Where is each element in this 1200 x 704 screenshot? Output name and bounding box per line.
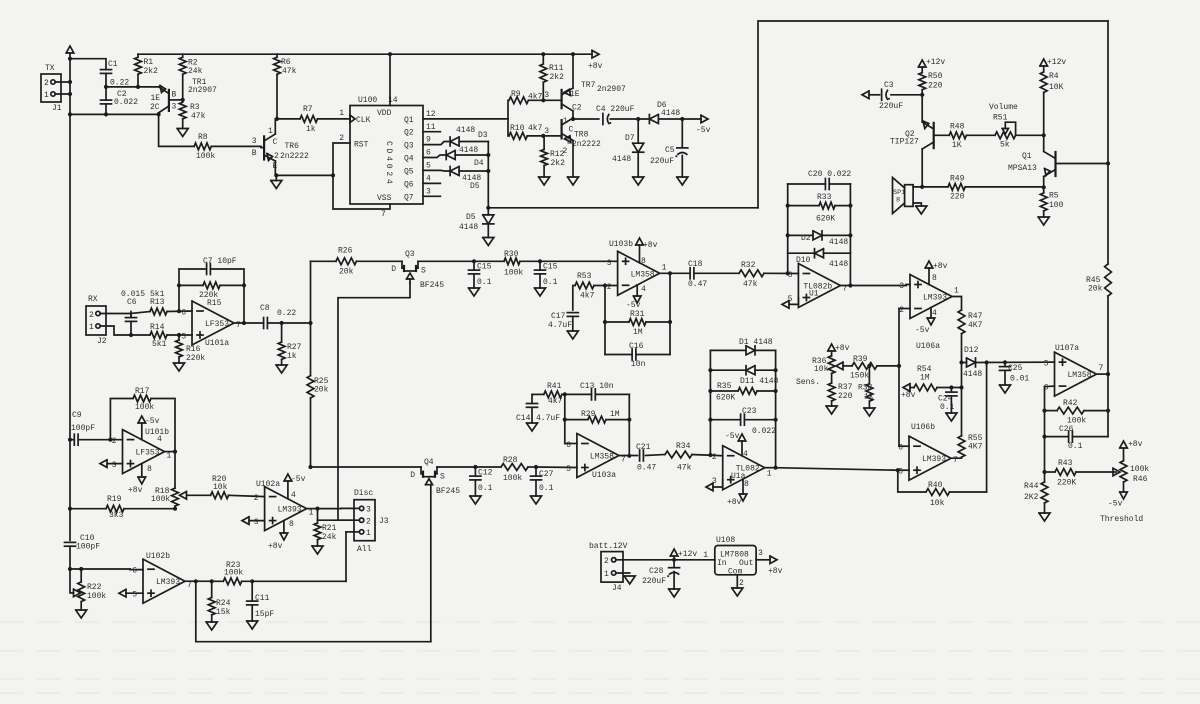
ground below R12: [539, 177, 550, 185]
svg-text:D1 4148: D1 4148: [739, 338, 773, 347]
svg-text:4148: 4148: [829, 260, 848, 269]
svg-text:100k: 100k: [196, 152, 215, 161]
resistor R49: [948, 175, 965, 202]
wire U103b output: [660, 272, 690, 274]
wiper arrow R18: [180, 492, 187, 500]
wire R41 left lead: [533, 393, 544, 395]
node junction: [486, 206, 490, 210]
svg-text:Threshold: Threshold: [1100, 515, 1143, 524]
node junction: [848, 204, 852, 208]
svg-text:8: 8: [744, 480, 749, 489]
wire J1 pin1 to bus: [55, 93, 70, 95]
op-amp U103b: [607, 240, 667, 310]
wire R18 wiper to R20: [187, 494, 211, 496]
ground below speaker: [916, 206, 927, 214]
node junction: [636, 117, 640, 121]
wire R30 to C15b: [520, 260, 540, 262]
svg-text:3: 3: [758, 549, 763, 558]
svg-text:4.7uF: 4.7uF: [548, 321, 572, 330]
node junction: [177, 333, 181, 337]
power +8v arrow sens: [828, 344, 850, 353]
ground below C28: [669, 589, 680, 597]
svg-text:C3: C3: [884, 81, 894, 90]
transistor TR7: [562, 81, 626, 113]
ground below C27: [531, 496, 542, 504]
svg-text:+8v: +8v: [588, 62, 603, 71]
svg-text:+12v: +12v: [1047, 58, 1066, 67]
resistor R37: [828, 383, 852, 401]
connector J2: [86, 295, 107, 346]
svg-text:8: 8: [289, 520, 294, 529]
diode D2: [801, 231, 848, 247]
wire U103a output: [619, 455, 638, 457]
wire bus to C1 top: [70, 59, 106, 70]
op-amp U101a: [181, 301, 241, 348]
wire C17 to ground: [572, 317, 574, 332]
svg-text:47k: 47k: [191, 112, 206, 121]
svg-text:1: 1: [366, 529, 371, 538]
capacitor C9: [71, 411, 95, 445]
svg-text:R34: R34: [676, 442, 691, 451]
svg-text:-5v: -5v: [696, 126, 711, 135]
transistor TR1: [150, 78, 217, 113]
wire J1 return wire: [70, 113, 159, 115]
resistor R14: [150, 323, 167, 349]
ground below C17: [567, 331, 578, 339]
resistor R4: [1040, 72, 1063, 93]
wire U106a output to R47: [952, 297, 962, 311]
svg-text:D3: D3: [478, 131, 488, 140]
resistor R3: [179, 102, 205, 121]
svg-text:C15: C15: [477, 263, 492, 272]
wire Q1 wire to R10: [508, 119, 509, 136]
resistor R26: [336, 247, 357, 277]
svg-text:R10: R10: [510, 124, 525, 133]
node junction: [1042, 133, 1046, 137]
capacitor C13: [580, 382, 614, 400]
wire C8 to R25 bus: [268, 322, 311, 324]
node junction: [920, 185, 924, 189]
svg-text:R39: R39: [853, 355, 868, 364]
svg-text:1: 1: [954, 287, 959, 296]
svg-text:U103b: U103b: [609, 240, 633, 249]
svg-text:R33: R33: [817, 193, 832, 202]
svg-text:2: 2: [563, 147, 568, 156]
node junction: [708, 368, 712, 372]
wire R47-R55 vertical: [961, 334, 963, 436]
wire R24 top lead: [211, 581, 213, 597]
svg-text:2: 2: [112, 437, 117, 446]
wire D4 to bus: [455, 154, 488, 156]
wire U108 out lead: [756, 559, 770, 561]
svg-text:+8v: +8v: [643, 241, 658, 250]
wire R37 to ground: [831, 401, 833, 406]
svg-text:TIP127: TIP127: [890, 138, 919, 147]
svg-text:4148: 4148: [456, 126, 475, 135]
svg-text:U100: U100: [358, 96, 377, 105]
svg-text:D12: D12: [964, 346, 979, 355]
resistor R38: [858, 384, 874, 402]
wire R16 top lead: [178, 335, 180, 340]
diode D11: [740, 366, 779, 386]
node junction: [708, 389, 712, 393]
svg-text:C17: C17: [551, 312, 566, 321]
svg-text:R28: R28: [503, 456, 518, 465]
svg-text:47k: 47k: [743, 280, 758, 289]
svg-text:4.7uF: 4.7uF: [536, 414, 560, 423]
power -5v arrow U102a: [284, 474, 306, 484]
wire J2 pin2 wire: [100, 314, 131, 318]
wire TR7 emitter to rail: [572, 54, 574, 88]
wire to Q2 emitter: [921, 95, 923, 122]
svg-text:2n2222: 2n2222: [572, 140, 601, 149]
svg-text:2: 2: [604, 557, 609, 566]
wire emitter to ground: [275, 175, 277, 180]
svg-text:1k: 1k: [864, 393, 874, 402]
svg-text:C: C: [273, 138, 278, 147]
wire R6 top lead: [276, 54, 278, 57]
node junction: [68, 567, 72, 571]
wire Q3 gate to J3 pin2: [338, 283, 410, 520]
wire R41 to C14: [532, 394, 533, 403]
svg-text:R48: R48: [950, 123, 965, 132]
wire C26 right lead: [1073, 436, 1109, 438]
svg-text:C12: C12: [478, 469, 493, 478]
svg-text:Q6: Q6: [404, 181, 414, 190]
node junction: [627, 418, 631, 422]
svg-text:R47: R47: [968, 312, 983, 321]
wire J3 pin3 stub: [352, 507, 359, 509]
svg-text:Q4: Q4: [424, 458, 434, 467]
wire U1a +8v lead: [742, 479, 744, 494]
op-amp U103a: [566, 434, 626, 481]
svg-text:2: 2: [254, 494, 259, 503]
node junction: [177, 283, 181, 287]
wire D12 to U107a pin5: [976, 361, 1055, 363]
svg-text:-5v: -5v: [915, 326, 930, 335]
wire D1 block right vertical: [775, 350, 777, 467]
resistor R28: [501, 456, 528, 483]
svg-text:LM358: LM358: [1068, 371, 1092, 380]
svg-text:R16: R16: [186, 345, 201, 354]
wire D10 left lead: [788, 252, 815, 254]
wire bus to R22 wiper: [70, 569, 74, 593]
node junction: [242, 283, 246, 287]
wire C6 bottom lead: [130, 322, 132, 336]
svg-text:2: 2: [739, 579, 744, 588]
ground below TR6: [271, 181, 282, 189]
svg-text:C1: C1: [108, 60, 118, 69]
wire R29 left lead: [565, 419, 588, 421]
svg-text:R51: R51: [993, 114, 1008, 123]
svg-text:R50: R50: [928, 72, 943, 81]
svg-text:0.1: 0.1: [539, 484, 554, 493]
wire R43 to R46 wiper: [1076, 471, 1116, 473]
svg-text:1K: 1K: [952, 141, 962, 150]
diode D5: [459, 213, 494, 232]
capacitor C27: [531, 470, 554, 493]
svg-text:4K7: 4K7: [968, 321, 983, 330]
node junction: [68, 80, 72, 84]
svg-text:1: 1: [563, 117, 568, 126]
svg-text:R26: R26: [338, 247, 353, 256]
resistor R20: [211, 475, 229, 499]
wire U101a output: [234, 322, 264, 324]
diode D6: [649, 101, 680, 124]
node junction: [627, 454, 631, 458]
node junction: [250, 579, 254, 583]
resistor R51 (pot): [993, 114, 1016, 150]
svg-text:6: 6: [426, 149, 431, 158]
svg-text:Q3: Q3: [405, 250, 415, 259]
node junction: [897, 364, 901, 368]
svg-text:220uF: 220uF: [650, 157, 674, 166]
svg-text:D11 4148: D11 4148: [740, 377, 779, 386]
node junction: [68, 92, 72, 96]
svg-text:batt.12V: batt.12V: [589, 542, 628, 551]
svg-text:J1: J1: [52, 104, 62, 113]
svg-text:2: 2: [89, 311, 94, 320]
svg-text:3: 3: [366, 506, 371, 515]
wire R46 bottom lead: [1123, 482, 1125, 492]
wire into U106b pin5: [898, 469, 909, 471]
svg-text:U107a: U107a: [1055, 344, 1079, 353]
svg-text:2C: 2C: [150, 103, 160, 112]
wire C1 bottom lead: [105, 74, 107, 87]
wire D12 node down to R40: [986, 363, 988, 493]
svg-text:-5v: -5v: [1108, 500, 1123, 509]
wire C25 top lead: [1004, 362, 1006, 366]
svg-text:12: 12: [426, 110, 436, 119]
op-amp U1a TL082: [712, 446, 772, 490]
wire R19 to R18 bottom: [124, 508, 175, 510]
node junction: [280, 321, 284, 325]
wire R2 to TR1 base node: [182, 74, 184, 100]
wire Q1 emitter down: [1043, 177, 1045, 193]
svg-text:R5: R5: [1049, 192, 1059, 201]
wire C15b to ground: [539, 274, 541, 288]
wire J1 pin2 to bus: [55, 81, 70, 83]
node junction: [315, 507, 319, 511]
svg-text:S: S: [440, 473, 445, 482]
node junction: [104, 85, 108, 89]
svg-text:+8v: +8v: [901, 391, 916, 400]
svg-text:5: 5: [566, 465, 571, 474]
wire J4 to U108 In: [616, 559, 715, 561]
wire +12v lead: [673, 556, 675, 560]
wire TR6 collector lead: [274, 119, 276, 134]
svg-text:R41: R41: [547, 382, 562, 391]
node junction: [786, 204, 790, 208]
power +12v arrow R4: [1040, 58, 1067, 67]
svg-text:Sens.: Sens.: [796, 378, 820, 387]
wire node to C4: [573, 118, 599, 120]
node junction: [985, 360, 989, 364]
svg-text:100k: 100k: [151, 495, 170, 504]
node junction: [210, 579, 214, 583]
svg-text:15pF: 15pF: [255, 610, 274, 619]
svg-text:150k: 150k: [850, 372, 869, 381]
svg-text:-5v: -5v: [725, 432, 740, 441]
wire C3 to R50 node: [891, 94, 922, 96]
svg-text:C26: C26: [1059, 425, 1074, 434]
wire R3 to ground: [182, 119, 184, 129]
node junction: [603, 320, 607, 324]
svg-text:R27: R27: [287, 343, 302, 352]
capacitor C17: [548, 312, 578, 330]
svg-text:D2: D2: [801, 234, 811, 243]
svg-text:3k3: 3k3: [109, 511, 124, 520]
wire TR1 collector to R8: [159, 113, 195, 147]
svg-text:1M: 1M: [920, 374, 930, 383]
capacitor C3: [879, 81, 903, 111]
node junction: [774, 466, 778, 470]
wire U103b fb left vertical: [604, 286, 606, 355]
wire D11 right lead: [755, 369, 776, 371]
wire left vertical bus upper: [69, 53, 71, 540]
wire Q4 pin6 wire: [423, 155, 446, 158]
diode D1: [739, 338, 773, 355]
capacitor C2: [101, 90, 139, 107]
wire C26 left lead: [1045, 436, 1069, 438]
wire R4 top lead: [1043, 66, 1045, 72]
svg-text:100k: 100k: [87, 592, 106, 601]
wire R21 to ground: [317, 540, 319, 546]
transistor Q1: [1008, 152, 1056, 177]
svg-text:R43: R43: [1058, 459, 1073, 468]
svg-text:VDD: VDD: [377, 109, 392, 118]
wire D3 to bus: [459, 141, 488, 143]
wire R42 left lead: [1045, 410, 1058, 412]
wire R39 to U106 vertical: [877, 365, 899, 367]
svg-text:Q4: Q4: [404, 155, 414, 164]
ground arrow U102b pin5: [119, 589, 126, 597]
svg-text:0.1: 0.1: [940, 403, 955, 412]
svg-text:LM358: LM358: [590, 453, 614, 462]
wire R41 to C13: [562, 393, 592, 395]
svg-text:47k: 47k: [677, 464, 692, 473]
resistor R53: [575, 272, 595, 301]
svg-text:1: 1: [167, 452, 172, 461]
wire output down long wire: [196, 581, 431, 641]
capacitor C20: [808, 170, 851, 190]
wire Q5 pin5 wire: [423, 169, 450, 172]
resistor R16: [176, 340, 206, 363]
svg-text:LM393: LM393: [156, 578, 180, 587]
svg-text:R46: R46: [1133, 475, 1148, 484]
svg-text:2: 2: [899, 306, 904, 315]
wire Q6 pin4 stub: [423, 182, 440, 184]
svg-text:3: 3: [112, 461, 117, 470]
op-amp U107a: [1044, 344, 1104, 396]
svg-text:Q5: Q5: [404, 168, 414, 177]
ground below C12: [470, 496, 481, 504]
node junction: [541, 52, 545, 56]
transistor Q2: [890, 121, 934, 149]
svg-text:2k2: 2k2: [144, 67, 159, 76]
svg-text:4: 4: [291, 491, 296, 500]
wire R12 top lead: [543, 136, 545, 150]
svg-text:7: 7: [381, 210, 386, 219]
wire R54 left lead: [910, 387, 914, 389]
wire C23 right lead: [745, 419, 776, 421]
svg-text:2: 2: [366, 518, 371, 527]
capacitor C26: [1059, 425, 1083, 451]
svg-text:Com: Com: [728, 568, 743, 577]
ground below R38: [864, 408, 875, 416]
svg-text:U1: U1: [809, 290, 819, 299]
wire feedback right vertical: [211, 269, 245, 323]
ground below C15a: [469, 288, 480, 296]
svg-text:3: 3: [254, 518, 259, 527]
svg-text:0.1: 0.1: [1068, 442, 1083, 451]
wire R18 bottom lead: [174, 506, 176, 509]
node junction: [181, 98, 185, 102]
node junction: [242, 321, 246, 325]
svg-text:5k1: 5k1: [150, 290, 165, 299]
svg-text:C15: C15: [543, 263, 558, 272]
capacitor C18: [688, 260, 707, 289]
node junction: [534, 465, 538, 469]
capacitor C23: [741, 407, 777, 436]
wire U1 pin5 to ground arrow: [789, 298, 798, 305]
node junction: [920, 93, 924, 97]
wire feedback left vertical: [179, 269, 207, 311]
svg-text:0.22: 0.22: [277, 309, 296, 318]
wire R42 right lead: [1084, 410, 1108, 412]
wire Q3 pin9 wire: [423, 142, 450, 145]
svg-text:B: B: [252, 149, 257, 158]
svg-text:Q3: Q3: [404, 142, 414, 151]
wire R36 wiper to R39: [843, 365, 852, 367]
capacitor C15: [469, 263, 492, 288]
svg-text:4k7: 4k7: [528, 124, 543, 133]
wire D2 left lead: [788, 234, 813, 236]
resistor R27: [278, 342, 301, 361]
node junction: [541, 98, 545, 102]
wire R9 to TR7 base: [528, 99, 561, 101]
power -5v arrow: [696, 115, 711, 135]
wire to R30: [474, 260, 504, 262]
svg-text:R35: R35: [717, 382, 732, 391]
svg-text:620K: 620K: [716, 394, 735, 403]
svg-text:R37: R37: [838, 383, 853, 392]
node junction: [571, 52, 575, 56]
node junction: [1106, 372, 1110, 376]
node junction: [563, 392, 567, 396]
ground below C25: [1000, 385, 1011, 393]
svg-text:4148: 4148: [459, 146, 478, 155]
wire C20 right lead: [829, 183, 850, 185]
wire C11 to ground: [251, 605, 253, 621]
power +8v arrow U103b: [636, 238, 658, 250]
capacitor C5: [650, 146, 688, 166]
svg-text:+8v: +8v: [835, 344, 850, 353]
svg-text:D5: D5: [470, 182, 480, 191]
ground arrow U1 pin5: [782, 301, 789, 309]
svg-text:U101a: U101a: [205, 339, 229, 348]
svg-text:+8v: +8v: [128, 486, 143, 495]
svg-text:C14: C14: [516, 414, 531, 423]
node junction: [603, 283, 607, 287]
svg-text:4148: 4148: [661, 109, 680, 118]
svg-text:LM393: LM393: [278, 506, 302, 515]
wire TX drive line up and over: [758, 21, 1108, 208]
power +V arrow top-left: [66, 46, 74, 53]
wire R48 to R51: [966, 134, 995, 136]
wire R8 to TR6 base: [211, 145, 261, 147]
node junction: [1042, 409, 1046, 413]
